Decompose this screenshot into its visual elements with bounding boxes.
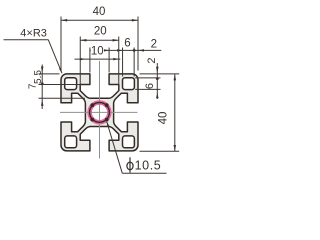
left chain dimension line 5.5/7: [41, 65, 43, 110]
dimension line lower row: [75, 58, 121, 60]
svg-text:20: 20: [94, 26, 107, 38]
right chain dot: [156, 77, 159, 80]
leader phi10.5 underline: [122, 172, 166, 174]
horizontal centerline: [60, 111, 138, 113]
extension line left lip bottom: [39, 84, 80, 86]
dimension line 40 top: [61, 19, 138, 21]
leader phi10.5 diagonal: [107, 122, 123, 174]
arrowhead phi10.5 leader: [107, 122, 110, 127]
extension line hole left: [122, 48, 124, 77]
svg-text:2: 2: [151, 39, 157, 51]
vertical centerline: [99, 61, 101, 159]
thread notch bottom-left: [90, 118, 94, 122]
arrowhead 4xR3 leader: [59, 68, 62, 73]
thread notch top-left: [90, 103, 94, 107]
aluminum extrusion profile cross-section (material): [61, 74, 138, 151]
dimension line 20: [80, 39, 119, 41]
extension line left slot floor: [39, 97, 86, 99]
svg-text:5.5: 5.5: [33, 70, 44, 84]
dim text 10: [91, 45, 104, 56]
svg-text:6: 6: [124, 37, 130, 49]
corner screw hole bottom-right: [123, 136, 135, 148]
arrow 40-top left: [61, 19, 67, 22]
svg-text:2: 2: [146, 57, 158, 63]
svg-text:7: 7: [27, 83, 38, 89]
chain dot at hole right edge: [133, 49, 136, 52]
right chain arrow down: [156, 67, 159, 73]
extension line mouth right: [108, 48, 110, 73]
center hole outline phi 10.5: [90, 103, 110, 123]
thread notch top-right: [105, 103, 109, 107]
corner screw hole top-left: [65, 78, 77, 90]
extension line right bottom face: [140, 150, 180, 152]
right chain dimension line 2/6: [156, 63, 158, 99]
arrow 20 left: [80, 39, 86, 42]
label phi10.5: phi glyph drawn: [127, 162, 133, 170]
extension line mouth left: [89, 48, 91, 73]
corner screw hole bottom-left: [65, 136, 77, 148]
corner screw hole top-right: [123, 78, 135, 90]
extension line hole right: [133, 48, 135, 77]
extension line right face: [137, 17, 139, 71]
dimension line 40 right: [174, 74, 176, 151]
extension line left top face: [39, 73, 60, 75]
extension line left face: [60, 17, 62, 71]
thread notch bottom-right: [105, 118, 109, 122]
svg-text:40: 40: [93, 6, 106, 18]
left chain arrow up: [41, 100, 44, 106]
right chain arrow up: [156, 93, 159, 99]
arrow 40-right top: [174, 74, 177, 80]
left chain arrow down: [41, 67, 44, 73]
extension line right hole top: [135, 77, 160, 79]
center hole pink highlight: [90, 103, 110, 123]
arrow 6-top left: [117, 49, 122, 52]
extension line cavity right: [118, 37, 120, 87]
leader 4xR3 underline: [4, 39, 49, 41]
dimension line 10/6/2 chain: [90, 49, 161, 51]
left chain dot: [41, 82, 44, 85]
arrow 2-top right: [138, 49, 144, 52]
extension line right hole bottom: [135, 88, 160, 90]
svg-text:10: 10: [91, 46, 104, 58]
svg-text:6: 6: [144, 83, 156, 89]
arrow 20 right: [113, 39, 119, 42]
arrow lower row left: [80, 58, 85, 61]
svg-text:10.5: 10.5: [135, 159, 162, 173]
arrow lower row right: [113, 58, 118, 61]
arrow 10 right: [104, 49, 110, 52]
svg-text:40: 40: [158, 112, 170, 125]
arrow 40-top right: [132, 19, 138, 22]
extension line cavity left: [79, 37, 81, 87]
svg-text:4×R3: 4×R3: [20, 28, 47, 40]
arrow 40-right bottom: [174, 145, 177, 151]
leader 4xR3 diagonal: [48, 40, 62, 73]
extension line right top face: [140, 73, 180, 75]
